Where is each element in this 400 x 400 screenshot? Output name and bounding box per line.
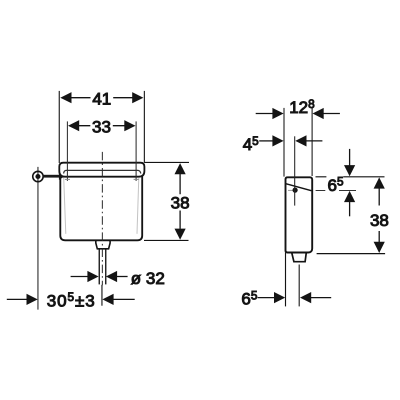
dimension 38 side: line and arrows [378, 188, 380, 243]
centerline front view [101, 152, 103, 285]
side view: tank outline [286, 177, 313, 252]
svg-text:45: 45 [243, 134, 259, 154]
lever rod [43, 175, 59, 178]
side view: button axis line [294, 136, 296, 205]
svg-text:ø 32: ø 32 [131, 269, 165, 288]
dimension 6.5 right: up arrow [349, 202, 351, 217]
dimension 4.5: left arrow [259, 140, 272, 142]
dimension diameter 32: right arrow [117, 276, 128, 278]
side view: top extension line right [316, 176, 385, 178]
dimension 30.5 +-3: left arrow [7, 298, 27, 300]
flush pipe right wall [105, 249, 107, 285]
dimension 33 line and arrows [79, 125, 125, 127]
dimension 41 extension line left [58, 91, 60, 163]
lever bracket wedge [59, 174, 64, 180]
svg-text:38: 38 [370, 211, 389, 230]
dimension diameter 32: left arrow [71, 276, 88, 278]
dimension 30.5 +-3: right arrow [114, 298, 135, 300]
flush valve outlet (front view) [96, 240, 110, 248]
side view: back extension line below [285, 253, 287, 307]
lid front edge line [64, 170, 141, 173]
dimension 6.5 bottom: left arrow [258, 297, 275, 299]
body inner contour right [137, 178, 139, 234]
side view: seam extension line right [316, 190, 356, 192]
svg-text:128: 128 [289, 97, 315, 117]
dimension 38 front: top extension line [145, 161, 189, 163]
side view: outlet centerline [298, 265, 300, 307]
svg-text:41: 41 [92, 90, 111, 109]
svg-text:38: 38 [171, 193, 190, 212]
flush knob axis line [37, 167, 39, 310]
body inner contour left [64, 178, 66, 234]
dimension 33 extension line right [135, 121, 137, 180]
dimension 33 tick right [134, 178, 139, 180]
dimension 4.5: right arrow [306, 140, 322, 142]
side view: lid seam diagonal [286, 184, 312, 191]
svg-text:33: 33 [92, 117, 111, 136]
dimension 41 extension line right [143, 91, 145, 163]
dimension 6.5 right: down arrow [349, 149, 351, 166]
svg-text:65: 65 [241, 288, 257, 308]
dimension 33 extension line left [66, 121, 68, 180]
dimension 38 front: bottom extension line [144, 239, 189, 241]
svg-text:65: 65 [328, 175, 344, 195]
dimension 33 tick left [65, 178, 70, 180]
dimension 12.8: left arrow [256, 113, 273, 115]
side view: front extension line above [311, 107, 313, 176]
dimension 6.5 bottom: right arrow [311, 297, 331, 299]
side view: button tick [288, 189, 294, 191]
dimension 38 side: bottom extension line [317, 253, 386, 255]
dimension 41 line and arrows [71, 97, 133, 99]
flush pipe left wall [98, 249, 100, 285]
cistern lid (front view) [59, 163, 144, 177]
side view: flush button dot [293, 188, 298, 193]
pipe axis tick [101, 285, 103, 306]
side view: back extension line above [283, 108, 285, 177]
flush knob [33, 171, 43, 181]
svg-text:305±3: 305±3 [47, 290, 96, 310]
cistern body (front view) [60, 176, 142, 240]
dimension 12.8: right arrow [324, 113, 340, 115]
side view: outlet [292, 253, 307, 262]
dimension 38 front: line and arrows [179, 174, 181, 229]
